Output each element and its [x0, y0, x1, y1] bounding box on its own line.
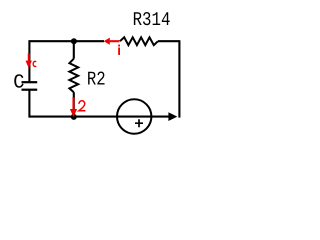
wire left vertical upper (corner to capacitor top plate) [28, 40, 30, 82]
junction node bottom (middle branch) [71, 114, 77, 120]
black arrowhead bottom right (pointing right) [168, 112, 177, 121]
svg-text:C: C [13, 71, 24, 93]
capacitor C top plate [22, 81, 38, 83]
red arrowhead 2 [70, 109, 77, 117]
red current arrow i (pointing left on top wire) [110, 40, 120, 42]
wire right vertical [178, 40, 180, 117]
red arrowhead i [104, 38, 110, 45]
red current label i (stem) [118, 48, 120, 56]
svg-text:R2: R2 [87, 68, 106, 90]
wire bottom horizontal [29, 116, 168, 118]
junction node top (middle branch) [71, 38, 77, 44]
capacitor C bottom plate [22, 89, 38, 91]
wire top-left horizontal (node to arrowhead) [29, 40, 104, 42]
wire middle upper (top node to R2) [73, 41, 75, 59]
red current label i (dot) [118, 45, 120, 47]
wire left vertical lower (capacitor to bottom wire) [28, 90, 30, 118]
red current arrow 2 (pointing down on middle branch) [72, 98, 74, 110]
wire top-right (resistor to right corner) [158, 40, 179, 42]
current source plus sign [135, 119, 143, 127]
red current arrow c (pointing down on left branch) [28, 53, 30, 62]
svg-text:R314: R314 [133, 9, 171, 31]
resistor R2 (vertical zigzag) [69, 59, 78, 92]
red current label 2 [79, 101, 85, 111]
red current label c [33, 61, 36, 66]
resistor R314 (horizontal zigzag) [120, 37, 158, 45]
current source circle [117, 99, 151, 133]
red arrowhead c [26, 61, 32, 69]
wire middle lower (R2 to bottom node) [73, 92, 75, 116]
